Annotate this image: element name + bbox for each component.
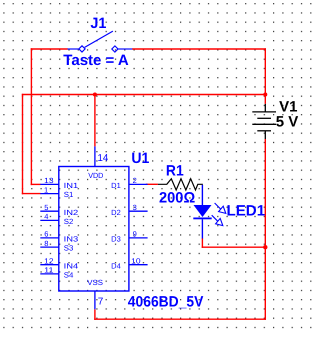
- svg-text:8: 8: [44, 239, 48, 248]
- wire: battery bottom vertical: [265, 139, 266, 320]
- pin 10 stub (D4): [129, 264, 148, 266]
- svg-text:R1: R1: [166, 162, 184, 179]
- wire: vertical drop to pin 14: [94, 94, 95, 146]
- LED light arrow 1: [215, 203, 226, 213]
- wire: switch right horizontal: [132, 48, 266, 49]
- LED LED1: [193, 203, 226, 226]
- svg-text:S1: S1: [64, 190, 74, 199]
- wire: resistor corner down to LED (blue): [202, 185, 203, 205]
- pin 9 stub (D3): [129, 237, 148, 239]
- svg-text:U1: U1: [131, 150, 149, 167]
- pin 5 stub (IN2): [40, 210, 59, 212]
- svg-text:VSS: VSS: [87, 278, 103, 287]
- resistor R1: [158, 179, 203, 190]
- wire: top horizontal bus y=94.5: [22, 94, 266, 95]
- svg-text:D3: D3: [111, 235, 121, 244]
- wire: LED branch horizontal: [202, 247, 266, 248]
- svg-text:IN1: IN1: [64, 181, 79, 190]
- svg-text:D2: D2: [111, 208, 121, 217]
- wire: bottom horizontal: [94, 319, 266, 320]
- pin 13 stub (IN1): [40, 183, 59, 185]
- svg-text:12: 12: [44, 257, 53, 266]
- IC U1 body: [59, 167, 129, 292]
- pin 3 stub (D2): [129, 210, 148, 212]
- svg-text:1: 1: [44, 185, 48, 194]
- wire: right vertical switch to battery junction: [265, 48, 266, 104]
- svg-text:Taste = A: Taste = A: [63, 52, 129, 69]
- pin 6 stub (IN3): [40, 237, 59, 239]
- battery V1: [252, 104, 276, 139]
- svg-text:LED1: LED1: [227, 202, 266, 219]
- wire: switch left horizontal: [31, 48, 68, 49]
- svg-text:IN3: IN3: [64, 235, 79, 244]
- pin 4 stub (S2): [40, 219, 59, 221]
- svg-text:S3: S3: [64, 244, 74, 253]
- wire: left vertical to pin 1: [22, 94, 23, 195]
- svg-text:VDD: VDD: [88, 171, 104, 180]
- svg-text:6: 6: [44, 230, 48, 239]
- svg-text:5 V: 5 V: [276, 113, 299, 130]
- wire: stub feed pin 1: [22, 193, 41, 194]
- svg-text:J1: J1: [90, 15, 106, 32]
- wire: left vertical to pin 13: [31, 48, 32, 185]
- wire: LED bottom red vertical: [202, 238, 203, 248]
- switch J1: [68, 31, 133, 52]
- svg-text:2: 2: [133, 176, 137, 185]
- svg-text:S2: S2: [64, 217, 74, 226]
- pin 7 stub (VSS): [94, 291, 96, 309]
- svg-text:13: 13: [44, 176, 53, 185]
- svg-text:D1: D1: [111, 181, 121, 190]
- svg-text:14: 14: [98, 153, 109, 164]
- pin 14 stub (VDD): [94, 146, 96, 166]
- svg-text:4066BD_5V: 4066BD_5V: [128, 294, 204, 311]
- junction node at battery top: [263, 93, 267, 97]
- svg-text:5: 5: [44, 203, 48, 212]
- svg-text:10: 10: [131, 257, 140, 266]
- svg-text:7: 7: [98, 297, 104, 308]
- wire: stub feed pin 13: [31, 184, 41, 185]
- svg-text:4: 4: [44, 212, 48, 221]
- svg-text:3: 3: [133, 203, 137, 212]
- pin 1 stub (S1): [40, 193, 59, 195]
- pin 8 stub (S3): [40, 246, 59, 248]
- wire: LED bottom blue vertical: [202, 219, 203, 238]
- svg-text:200Ω: 200Ω: [159, 190, 195, 207]
- wire: pin2 to resistor: [146, 184, 158, 185]
- svg-text:IN2: IN2: [64, 208, 79, 217]
- svg-text:9: 9: [133, 230, 137, 239]
- LED light arrow 2: [212, 215, 223, 225]
- pin 11 stub (S4): [40, 273, 59, 275]
- pin 12 stub (IN4): [40, 264, 59, 266]
- pin 2 stub (D1): [129, 183, 148, 185]
- svg-text:11: 11: [44, 266, 53, 275]
- junction node at pin14 drop: [93, 93, 97, 97]
- junction node at LED branch: [263, 245, 267, 249]
- svg-text:IN4: IN4: [64, 261, 79, 270]
- svg-text:D4: D4: [111, 261, 121, 270]
- svg-text:S4: S4: [64, 271, 74, 280]
- wire: pin 7 drop: [94, 309, 95, 320]
